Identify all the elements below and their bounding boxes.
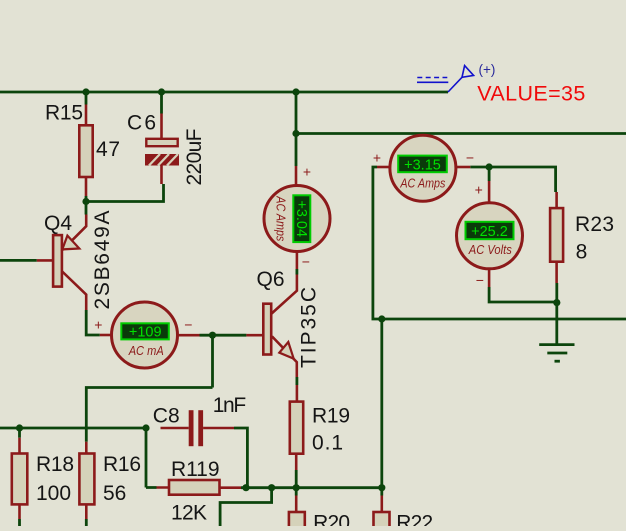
resistor R119	[157, 458, 242, 525]
wire Q4 collector to AC mA meter	[85, 310, 100, 335]
wire staircase to bottom edge	[220, 488, 273, 526]
wire R15 top lead	[85, 92, 88, 105]
svg-text:(+): (+)	[479, 62, 496, 77]
svg-text:R22: R22	[396, 511, 433, 526]
wire AC mA meter to Q6 base	[200, 334, 247, 337]
resistor R19	[290, 385, 350, 470]
wire long vertical from node to bottom bus	[380, 319, 383, 488]
resistor R22	[374, 496, 434, 531]
svg-text:C8: C8	[153, 405, 180, 428]
svg-text:2SB649A: 2SB649A	[91, 211, 114, 310]
wire R15/C6 bottom node	[86, 184, 164, 203]
wire C6 top lead	[160, 92, 163, 114]
wire second rail to right edge	[296, 132, 626, 135]
wire R18 bottom stub	[18, 519, 21, 526]
meter AC Amps (+3.04, rotated)	[264, 164, 330, 270]
svg-text:100: 100	[36, 482, 71, 505]
wire R16 bottom stub	[85, 519, 88, 526]
svg-text:12K: 12K	[171, 502, 207, 525]
svg-text:R119: R119	[171, 458, 220, 481]
svg-text:+: +	[303, 164, 311, 180]
svg-text:0.1: 0.1	[312, 432, 343, 455]
svg-text:56: 56	[103, 482, 126, 505]
wire C8 right lead down	[234, 427, 247, 488]
svg-text:Q6: Q6	[257, 268, 285, 291]
svg-text:1nF: 1nF	[213, 394, 247, 417]
wire lower-left rail	[0, 427, 146, 430]
resistor R23	[550, 192, 614, 283]
meter AC Volts (+25.2)	[457, 181, 523, 288]
wire bottom bus	[241, 486, 382, 489]
svg-text:AC Volts: AC Volts	[468, 243, 512, 257]
svg-text:+: +	[475, 182, 483, 198]
capacitor C6	[127, 111, 206, 185]
wire Q6 emitter to R19	[295, 377, 298, 385]
svg-text:VALUE=35: VALUE=35	[477, 82, 585, 106]
meter AC Amps (+3.15)	[373, 135, 474, 201]
svg-text:+3.15: +3.15	[404, 157, 441, 173]
svg-text:R19: R19	[312, 405, 350, 428]
svg-text:R20: R20	[313, 511, 350, 526]
resistor R16	[79, 442, 141, 519]
wire node D down to AC Volts meter	[488, 167, 491, 181]
svg-text:−: −	[476, 272, 484, 288]
wire long horizontal rail y319	[372, 167, 626, 320]
transistor Q4 2SB649A	[0, 211, 114, 311]
transistor Q6 TIP35C	[246, 268, 320, 377]
svg-text:8: 8	[576, 240, 588, 263]
svg-text:R16: R16	[103, 453, 141, 476]
resistor R20	[289, 496, 350, 531]
wire AC Volts bottom to ground node	[488, 287, 557, 302]
wire from top rail down to AC Amps meter U2	[295, 92, 298, 166]
capacitor C8	[153, 394, 246, 446]
wire R18 top lead	[18, 428, 21, 438]
wire node to Q4 emitter	[85, 202, 88, 215]
svg-text:−: −	[466, 150, 474, 166]
resistor R15	[45, 101, 120, 196]
svg-text:+: +	[94, 317, 102, 333]
wire Q6 collector to meter	[295, 269, 298, 275]
svg-text:AC mA: AC mA	[128, 344, 164, 358]
svg-text:Q4: Q4	[44, 212, 72, 235]
svg-text:AC Amps: AC Amps	[274, 195, 288, 241]
svg-text:+3.04: +3.04	[293, 200, 309, 237]
wire R22 top lead	[380, 488, 383, 496]
wire R19 bottom lead	[295, 470, 298, 488]
node junction dots	[16, 88, 561, 491]
svg-text:R23: R23	[575, 213, 614, 236]
svg-text:+: +	[373, 150, 381, 166]
svg-text:C6: C6	[127, 111, 156, 134]
svg-text:AC Amps: AC Amps	[400, 176, 446, 190]
svg-text:R15: R15	[45, 101, 83, 124]
wire R23 bottom / ground stem	[555, 283, 558, 344]
wire node down to R119 left	[146, 428, 157, 488]
wire node B down and left to R16	[86, 335, 212, 442]
meter AC mA	[94, 302, 199, 368]
svg-text:+109: +109	[129, 325, 162, 341]
svg-text:220uF: 220uF	[183, 129, 206, 186]
wire R20 top lead	[295, 488, 298, 496]
wire AC Amps U3 right to node D	[470, 166, 555, 192]
svg-text:−: −	[184, 317, 192, 333]
ground	[539, 345, 574, 362]
svg-text:−: −	[302, 254, 310, 270]
wire main top rail	[0, 91, 448, 94]
resistor R18	[12, 438, 74, 519]
svg-text:R18: R18	[36, 453, 74, 476]
svg-text:47: 47	[96, 138, 120, 161]
svg-text:TIP35C: TIP35C	[298, 287, 321, 368]
voltage probe (+)	[417, 62, 495, 92]
svg-text:+25.2: +25.2	[471, 224, 508, 240]
